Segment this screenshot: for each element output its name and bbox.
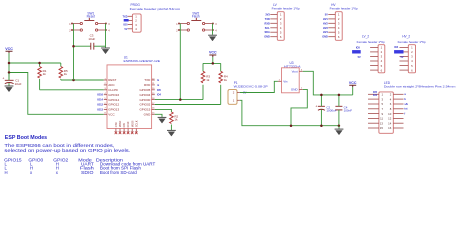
connector HV female header 1*6p xyxy=(322,3,358,40)
junction VCC1/C1 xyxy=(8,71,11,74)
svg-text:5V: 5V xyxy=(325,13,328,16)
pin 1 GND xyxy=(299,88,303,90)
wire VCC2 stem and rail xyxy=(203,57,221,63)
svg-text:IO0: IO0 xyxy=(123,24,128,27)
wire SW2 right vertical to ground xyxy=(212,24,214,35)
svg-text:HV3: HV3 xyxy=(323,27,328,30)
connector P1 WJ2EDGVC-5.08-2P xyxy=(228,81,268,104)
pin 5 LED xyxy=(368,103,379,105)
junction C2 top xyxy=(320,94,323,97)
pin 9 LED xyxy=(368,113,379,115)
svg-text:GND: GND xyxy=(291,88,299,92)
svg-text:selected on power-up based on: selected on power-up based on GPIO pin l… xyxy=(4,148,130,153)
pin 6 LV_2 xyxy=(370,69,378,71)
resistor R3 1k xyxy=(201,63,210,82)
svg-text:Female header pitch2.54mm: Female header pitch2.54mm xyxy=(130,7,181,11)
capacitor C4 100nF xyxy=(335,95,352,126)
wire VCC net to IC VCC pin xyxy=(9,73,104,115)
svg-text:WJ2EDGVC-5.08-2P: WJ2EDGVC-5.08-2P xyxy=(234,84,268,88)
wire top rail to R1/R5 xyxy=(9,62,61,64)
wire GPIO15 to R2 xyxy=(155,109,172,112)
svg-text:1000uF: 1000uF xyxy=(326,109,336,113)
pin 2 HV_2 net flag xyxy=(400,51,409,53)
regulator U3 HT7333-A xyxy=(278,61,303,93)
svg-text:IO4: IO4 xyxy=(373,94,378,97)
svg-text:12: 12 xyxy=(388,117,392,121)
svg-text:GPIO02: GPIO02 xyxy=(139,103,150,107)
pin 6 GPIO12 xyxy=(104,103,120,107)
svg-text:IO4: IO4 xyxy=(157,94,162,97)
svg-text:IO4: IO4 xyxy=(394,46,399,49)
pin 13 MOSI (bottom) xyxy=(130,120,134,134)
pin 1 LV xyxy=(270,13,277,15)
resistor R5 1k xyxy=(59,63,68,80)
capacitor C3 10uF xyxy=(74,33,106,49)
svg-text:RXD: RXD xyxy=(144,83,151,87)
pin 2 ADC xyxy=(104,83,116,87)
pin 20 GPIO05 xyxy=(139,88,155,92)
svg-text:TXD: TXD xyxy=(123,15,128,18)
svg-text:HV1: HV1 xyxy=(323,18,328,21)
svg-text:GPIO15: GPIO15 xyxy=(4,158,22,163)
svg-text:1k: 1k xyxy=(64,72,68,76)
svg-text:IO16: IO16 xyxy=(97,93,103,97)
wire GPIO02 net to R4 xyxy=(155,104,221,106)
ground for R2 xyxy=(167,130,176,136)
svg-text:MOSI: MOSI xyxy=(130,120,134,127)
wire P1 pin2 to U3 Vin xyxy=(240,81,278,92)
svg-text:H: H xyxy=(5,170,8,175)
pin 11 IO9 (bottom) xyxy=(122,123,126,135)
svg-text:VCC: VCC xyxy=(5,47,13,51)
pin 8 VCC xyxy=(104,113,116,117)
pin 13 LED xyxy=(368,122,379,124)
wire SW2 left vertical to GPIO00 net xyxy=(179,24,181,100)
pin 5 HV xyxy=(328,31,335,33)
net label RXD flag on PROG pin2 xyxy=(124,19,129,22)
node VCC1 (top-left power flag) xyxy=(5,47,13,53)
svg-text:10uF: 10uF xyxy=(88,37,95,41)
pin 4 LV_2 xyxy=(370,60,378,62)
svg-text:13: 13 xyxy=(380,121,384,125)
svg-text:Double row straight 2*8Headers: Double row straight 2*8Headers Pins 2.54… xyxy=(384,84,456,88)
pin 16 LED xyxy=(393,127,403,129)
pin 22 TXD xyxy=(144,78,155,82)
pin 2 LED xyxy=(393,93,403,95)
pin 4 LED xyxy=(393,98,403,100)
pin 16 GPIO15 xyxy=(139,108,155,112)
pin 6 LV xyxy=(270,36,277,38)
svg-text:Female header 1*6p: Female header 1*6p xyxy=(330,6,358,10)
node VCC2 (pull-up rail power flag) xyxy=(209,51,217,57)
svg-text:1k: 1k xyxy=(174,118,178,122)
svg-text:GPIO15: GPIO15 xyxy=(139,108,150,112)
pin 5 LV xyxy=(270,31,277,33)
pin 2 PROG xyxy=(128,19,132,21)
pin 19 GPIO04 xyxy=(139,93,155,97)
pin 6 LED xyxy=(393,103,403,105)
svg-text:RXD: RXD xyxy=(265,22,270,25)
svg-text:3V3: 3V3 xyxy=(265,13,270,16)
svg-text:100nF: 100nF xyxy=(344,109,353,113)
junction SW1/C3 left xyxy=(72,45,75,48)
junction SW1/REST net xyxy=(72,79,75,82)
svg-text:VCC: VCC xyxy=(209,51,217,55)
svg-text:IO10: IO10 xyxy=(126,121,130,127)
junction VCC1/top-rail xyxy=(8,62,11,65)
pin 4 LV xyxy=(270,27,277,29)
wire R3 lead down xyxy=(202,85,204,100)
capacitor C1 10uF xyxy=(2,73,21,86)
svg-text:IO5: IO5 xyxy=(157,89,162,92)
svg-text:VCC: VCC xyxy=(108,113,115,117)
svg-text:HV_2: HV_2 xyxy=(402,35,410,39)
junction C4 top xyxy=(338,94,341,97)
pin 6 HV_2 xyxy=(400,69,409,71)
pin 12 LED xyxy=(393,117,403,119)
svg-text:5V: 5V xyxy=(124,28,127,31)
wire GND rail stem xyxy=(338,126,340,129)
svg-text:Boot from SD-card: Boot from SD-card xyxy=(100,170,137,175)
svg-text:GND: GND xyxy=(144,113,152,117)
resistor R4 1k xyxy=(219,63,228,82)
pin 21 RXD xyxy=(144,83,155,87)
pin 3 CH-PD xyxy=(104,88,119,92)
junction GND rail at 291 xyxy=(290,124,293,127)
svg-text:1k: 1k xyxy=(206,78,210,82)
wire U3 GND to GND rail xyxy=(291,89,307,125)
junction R1 top rail xyxy=(38,62,41,65)
svg-text:GPIO14: GPIO14 xyxy=(108,98,119,102)
pin 15 GND xyxy=(144,113,156,117)
pin 4 GPIO16 xyxy=(104,93,120,97)
resistor R1 1k xyxy=(38,63,47,90)
wire R4 lead down xyxy=(220,85,222,105)
SW1 actuator bar xyxy=(84,18,94,21)
svg-text:GPIO12: GPIO12 xyxy=(108,103,119,107)
svg-text:ESP Boot Modes: ESP Boot Modes xyxy=(5,135,48,141)
svg-text:5V: 5V xyxy=(358,56,361,59)
junction VCC2 rail xyxy=(212,62,215,65)
connector LV_2 female header 1*6p xyxy=(352,35,385,73)
wire SW1 right vertical to C3/ground xyxy=(105,24,107,48)
pin 3 PROG xyxy=(128,24,132,26)
connector PROG female header pitch2.54mm xyxy=(123,3,182,32)
pin 3 Vout xyxy=(299,70,303,72)
connector HV_2 female header 1*6p xyxy=(394,35,426,73)
pin 4 HV xyxy=(328,27,335,29)
svg-text:LV_2: LV_2 xyxy=(362,35,369,39)
svg-text:GPIO04: GPIO04 xyxy=(139,93,150,97)
svg-text:14: 14 xyxy=(388,121,392,125)
pin 18 GPIO00 xyxy=(139,98,155,102)
svg-text:GPIO00: GPIO00 xyxy=(139,98,150,102)
ground for SW1/C3 xyxy=(101,48,110,54)
pin 14 SCLK (bottom) xyxy=(134,120,138,134)
svg-text:5V: 5V xyxy=(400,56,403,59)
pin 2 HV xyxy=(328,18,335,20)
svg-text:HV2: HV2 xyxy=(323,22,328,25)
pin 1 REST xyxy=(104,78,117,82)
wire SW1 left vertical to REST net xyxy=(73,24,75,81)
pin 2 Vin xyxy=(278,80,282,82)
pin 1 LV_2 xyxy=(370,46,378,48)
pin 7 LED xyxy=(368,108,379,110)
wire P1 pin1 to GND rail xyxy=(240,100,339,125)
svg-text:GPIO16: GPIO16 xyxy=(108,93,119,97)
svg-text:GPIO05: GPIO05 xyxy=(139,88,150,92)
SW2 actuator bar xyxy=(191,18,201,21)
switch SW1 Reset xyxy=(69,11,110,32)
pin 10 LED xyxy=(393,113,403,115)
pin 6 HV xyxy=(328,36,335,38)
svg-text:MISO: MISO xyxy=(118,121,122,128)
svg-text:GND: GND xyxy=(264,36,270,39)
pin 10 MISO (bottom) xyxy=(118,121,122,134)
svg-text:GND: GND xyxy=(322,36,328,39)
pin 3 HV_2 xyxy=(400,56,409,58)
pin 4 HV_2 xyxy=(400,60,409,62)
pin 12 IO10 (bottom) xyxy=(126,121,130,134)
svg-text:ADC: ADC xyxy=(108,83,115,87)
svg-text:1k: 1k xyxy=(224,78,228,82)
svg-text:+: + xyxy=(2,76,4,80)
connector LED double row straight 2*8 header xyxy=(368,81,456,133)
junction C2 bottom xyxy=(320,124,323,127)
svg-text:tst: tst xyxy=(404,108,407,111)
pin 1 HV xyxy=(328,13,335,15)
pin 3 LV_2 xyxy=(370,56,378,58)
pin 1 PROG xyxy=(128,15,132,17)
ground for power rail xyxy=(335,129,344,135)
svg-text:11: 11 xyxy=(380,117,383,121)
pin 3 HV xyxy=(328,22,335,24)
connector LV female header 1*6p xyxy=(264,3,300,40)
svg-text:TXD: TXD xyxy=(265,18,270,21)
pin 17 GPIO02 xyxy=(139,103,155,107)
wire R2 bottom to ground xyxy=(170,125,172,131)
svg-text:GPIO13: GPIO13 xyxy=(108,108,119,112)
svg-text:15: 15 xyxy=(380,126,384,130)
wire VCC3 stem xyxy=(352,87,354,95)
svg-text:IO12: IO12 xyxy=(97,103,103,107)
svg-text:VCC: VCC xyxy=(349,81,357,85)
svg-text:SDA: SDA xyxy=(265,31,270,34)
wire VCC1 vertical rail xyxy=(8,53,10,80)
svg-text:Vout: Vout xyxy=(292,70,298,74)
svg-text:10uF: 10uF xyxy=(15,82,22,86)
resistor R2 1k xyxy=(170,112,179,124)
svg-text:SDIO: SDIO xyxy=(81,170,94,175)
pin 3 LED xyxy=(368,98,379,100)
pin 5 HV_2 xyxy=(400,65,409,67)
svg-text:CS0: CS0 xyxy=(114,122,118,128)
svg-text:SCL: SCL xyxy=(265,27,270,30)
pin 3 LV xyxy=(270,22,277,24)
svg-text:Female header 1*6p: Female header 1*6p xyxy=(398,40,426,44)
svg-text:IO14: IO14 xyxy=(97,98,103,102)
switch SW2 Flash xyxy=(176,11,217,32)
pin 11 LED xyxy=(368,117,379,119)
svg-text:Reset: Reset xyxy=(87,15,95,19)
pin 15 LED xyxy=(368,127,379,129)
svg-text:IO5: IO5 xyxy=(356,46,361,49)
node VCC3 (3.3V output power flag) xyxy=(349,81,357,87)
svg-text:1k: 1k xyxy=(43,72,47,76)
svg-text:s/b: s/b xyxy=(404,103,408,106)
svg-text:ESP8266-12E/ESP-12E: ESP8266-12E/ESP-12E xyxy=(124,59,161,63)
ground for SW2 xyxy=(208,35,217,41)
wire GPIO00 net to R3 xyxy=(155,99,203,101)
ground for C1 xyxy=(5,86,14,92)
svg-text:HV4: HV4 xyxy=(323,31,328,34)
pin 7 GPIO13 xyxy=(104,108,120,112)
svg-text:REST: REST xyxy=(108,78,116,82)
ground for U1 GND pin xyxy=(158,117,167,123)
pin 5 LV_2 xyxy=(370,65,378,67)
svg-text:CH-PD: CH-PD xyxy=(108,88,118,92)
wire R5 to REST pin xyxy=(61,79,104,81)
pin 2 LV_2 net flag xyxy=(370,51,378,53)
svg-text:SCLK: SCLK xyxy=(134,120,138,127)
pin 14 LED xyxy=(393,122,403,124)
capacitor C2 1000uF xyxy=(315,95,336,126)
pin 9 CS0 (bottom) xyxy=(114,122,118,134)
wire GND pin to ground xyxy=(155,114,162,117)
pin 1 HV_2 xyxy=(400,46,409,48)
svg-text:10: 10 xyxy=(388,112,392,116)
svg-text:Vin: Vin xyxy=(283,80,288,84)
wire R1 to CH-PD xyxy=(40,89,104,91)
pin 1 LED xyxy=(368,93,379,95)
svg-text:TXD: TXD xyxy=(144,78,151,82)
junction SW2/GPIO00 xyxy=(179,98,182,101)
svg-text:+: + xyxy=(315,105,317,109)
svg-text:Female header 1*6p: Female header 1*6p xyxy=(272,6,300,10)
pin 5 GPIO14 xyxy=(104,98,120,102)
op IC U1 ESP8266-12E/ESP-12E xyxy=(107,56,160,129)
junction C4 bottom xyxy=(338,124,341,127)
svg-text:16: 16 xyxy=(388,126,392,130)
svg-text:IO13: IO13 xyxy=(97,107,103,111)
pin 8 LED xyxy=(393,108,403,110)
wire U3 Vout to VCC rail xyxy=(303,71,353,95)
svg-text:IO9: IO9 xyxy=(122,123,126,128)
pin 4 PROG xyxy=(128,28,132,30)
pin 2 LV xyxy=(270,18,277,20)
svg-text:Female header 1*6p: Female header 1*6p xyxy=(357,40,385,44)
